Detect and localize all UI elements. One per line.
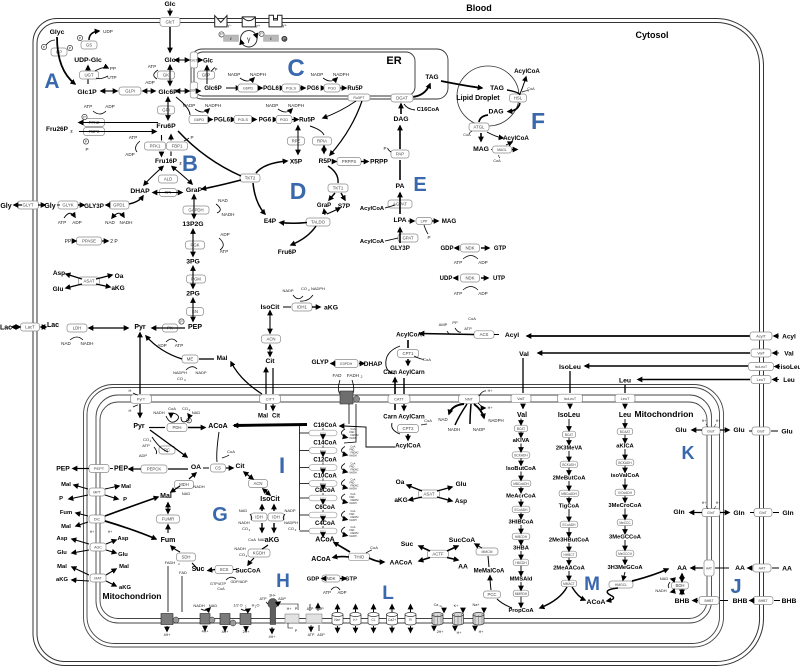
svg-text:BCAAT: BCAAT: [620, 430, 630, 434]
svg-text:PGL6: PGL6: [263, 86, 279, 92]
svg-text:AcylCoA: AcylCoA: [396, 332, 422, 339]
svg-text:Asp: Asp: [118, 536, 129, 542]
wire TALDO to E4P: [280, 222, 307, 225]
enzyme ME: [182, 355, 198, 363]
svg-text:H+: H+: [90, 530, 94, 534]
svg-text:FADH: FADH: [347, 373, 359, 378]
enzyme THIO: [349, 553, 370, 561]
wire beta-ox thick to ACoA: [234, 425, 307, 426]
svg-text:Glyc: Glyc: [50, 29, 65, 36]
wire column segment: [568, 558, 570, 565]
svg-text:Mal: Mal: [121, 484, 131, 490]
svg-text:A: A: [44, 70, 59, 93]
enzyme BCAAT Leu path: [617, 428, 633, 435]
transporter GLYT: [18, 201, 39, 209]
svg-text:CoA: CoA: [168, 406, 176, 411]
svg-text:ADP: ADP: [220, 232, 229, 237]
svg-text:UTP: UTP: [107, 75, 116, 80]
phospho-epsilon module right: [259, 31, 264, 36]
svg-text:KGDH: KGDH: [253, 551, 265, 556]
svg-text:SDH: SDH: [181, 555, 190, 560]
svg-text:aKICA: aKICA: [616, 444, 634, 450]
svg-text:C8CoA: C8CoA: [315, 488, 336, 494]
svg-text:BOX: BOX: [320, 431, 326, 435]
svg-text:UDP: UDP: [103, 29, 113, 34]
wire column segment: [624, 435, 626, 443]
svg-text:H+: H+: [108, 530, 112, 534]
svg-text:ADP: ADP: [105, 104, 114, 109]
enzyme HMGCL: [609, 581, 633, 588]
transporter AGC: [90, 543, 106, 551]
enzyme MBCoADH Val path: [511, 480, 531, 487]
wire GPD1 to DHAP: [129, 196, 143, 204]
svg-text:P: P: [190, 135, 193, 140]
wire GLY3P to LPA: [399, 228, 401, 243]
enzyme MMRDH Val path: [513, 590, 529, 597]
enzyme BOX step 5: [309, 495, 337, 501]
svg-text:Blood: Blood: [466, 3, 492, 13]
svg-text:PP: PP: [65, 239, 72, 245]
svg-text:aKG: aKG: [394, 497, 407, 504]
svg-text:AA: AA: [677, 565, 687, 572]
svg-text:MBCoADH: MBCoADH: [561, 492, 577, 496]
svg-text:ATP: ATP: [148, 64, 157, 69]
svg-text:DHAP: DHAP: [364, 361, 383, 368]
svg-text:4H+: 4H+: [202, 630, 209, 634]
svg-text:Val: Val: [519, 351, 529, 358]
svg-text:P: P: [85, 147, 88, 152]
svg-text:AAT: AAT: [706, 567, 712, 571]
wire Fru16P2 split to DHAP and GraP: [144, 167, 163, 186]
wire column segment: [624, 540, 626, 550]
svg-text:CoA: CoA: [423, 357, 431, 362]
enzyme LDH: [67, 324, 87, 332]
svg-text:Acyl: Acyl: [505, 332, 519, 339]
gamma cycle circle: [241, 31, 257, 47]
wire arc to S7P: [327, 208, 340, 214]
transporter ValT cell: [751, 349, 771, 357]
svg-text:CO: CO: [177, 376, 183, 381]
transporter OGC: [90, 574, 106, 582]
svg-text:G3PDH: G3PDH: [340, 362, 353, 366]
enzyme ACN cytosol: [262, 335, 281, 343]
wire column segment: [520, 487, 522, 493]
svg-text:Leu: Leu: [783, 377, 795, 384]
enzyme SCS: [215, 566, 233, 574]
svg-text:γ+: γ+: [282, 23, 287, 28]
svg-text:ACoA: ACoA: [208, 423, 227, 430]
svg-text:NAD: NAD: [660, 576, 669, 581]
svg-text:4H+: 4H+: [269, 635, 276, 639]
svg-text:C6CoA: C6CoA: [315, 505, 336, 511]
enzyme IDH mito x2: [251, 513, 267, 521]
svg-text:ACTF: ACTF: [432, 552, 444, 557]
svg-text:H+: H+: [488, 406, 493, 410]
svg-text:Suc: Suc: [401, 541, 414, 548]
svg-text:BOX: BOX: [320, 496, 326, 500]
svg-text:CITT: CITT: [266, 397, 275, 402]
svg-text:SCS: SCS: [220, 567, 229, 572]
svg-text:SucCoA: SucCoA: [449, 537, 476, 544]
svg-text:NADH: NADH: [448, 427, 460, 432]
wire MAG via MAGL: [491, 149, 492, 151]
svg-text:BHB: BHB: [675, 598, 690, 605]
transporter NNT: [459, 395, 480, 404]
enzyme MDH: [175, 481, 194, 489]
wire 2PG-PEP: [192, 299, 194, 322]
svg-text:PEP: PEP: [114, 466, 128, 473]
svg-text:H+: H+: [702, 501, 706, 505]
wire Glc1P-Glc6P: [101, 90, 117, 92]
svg-text:H+: H+: [716, 419, 720, 423]
svg-text:PG6: PG6: [259, 117, 272, 124]
svg-text:PP: PP: [452, 320, 458, 325]
wire ER GlcT arrows: [175, 59, 189, 61]
wire HMGCL to ACoA: [607, 588, 618, 601]
svg-text:J: J: [730, 576, 741, 598]
wire column segment: [520, 499, 522, 506]
enzyme RPIA: [313, 137, 332, 145]
wire column segment: [520, 582, 522, 590]
wire TAG to droplet: [441, 81, 482, 88]
wire AcylT to Acyl: [527, 335, 752, 337]
svg-text:3PG: 3PG: [186, 259, 200, 266]
transporter GluT mito: [702, 427, 720, 435]
svg-text:ATP: ATP: [58, 220, 67, 225]
svg-text:Glc6P: Glc6P: [204, 85, 222, 92]
svg-text:E4P: E4P: [264, 218, 277, 225]
svg-text:PGK: PGK: [190, 243, 199, 248]
wire Suc to Fum: [192, 563, 198, 570]
enzyme ECoADH IsoLeu path: [560, 521, 578, 528]
svg-text:MeMalCoA: MeMalCoA: [474, 569, 505, 575]
svg-text:HHBCT: HHBCT: [564, 553, 575, 557]
enzyme GK: [158, 71, 175, 79]
wire D-cycle arc TKT2 to E4P: [253, 183, 265, 214]
enzyme BCAT IsoLeu path: [562, 431, 575, 438]
svg-text:Mitochondrion: Mitochondrion: [634, 409, 693, 419]
wires THIO cross: [334, 543, 350, 553]
svg-text:CPT2: CPT2: [403, 426, 415, 431]
svg-text:LPA: LPA: [393, 217, 406, 224]
svg-text:G1Pi: G1Pi: [125, 89, 135, 94]
svg-text:aKG: aKG: [119, 585, 131, 591]
transporter AAT cell: [753, 564, 771, 572]
enzyme HBCDH Val path: [513, 559, 529, 566]
enzyme IDH1: [292, 303, 312, 311]
enzyme CS: [211, 464, 226, 472]
wires mGPD down to ladder: [348, 404, 350, 424]
svg-text:AMP: AMP: [439, 322, 448, 327]
transporter ANT: [306, 614, 322, 623]
svg-text:BCAT: BCAT: [565, 433, 573, 437]
wire column segment: [520, 472, 522, 481]
wire Pyr to OA via PC: [150, 430, 187, 457]
wire CarnAcylCarn through CATT: [394, 378, 396, 394]
svg-text:PGD: PGD: [328, 87, 336, 91]
svg-text:aKG: aKG: [56, 577, 68, 583]
svg-text:Lac: Lac: [47, 322, 59, 329]
svg-text:NADP: NADP: [195, 370, 206, 375]
svg-text:L: L: [382, 583, 394, 604]
svg-text:Na+: Na+: [472, 603, 480, 607]
svg-text:I: I: [279, 453, 285, 478]
svg-text:HIBCDH: HIBCDH: [515, 535, 528, 539]
svg-text:P: P: [59, 496, 63, 502]
wire MMACT to PropCoA and ACoA: [540, 587, 567, 608]
svg-text:γ: γ: [247, 37, 251, 44]
enzyme BOX step 4: [309, 481, 337, 487]
enzyme BOX step 3: [309, 465, 337, 471]
svg-text:ME: ME: [187, 357, 194, 362]
wire PA to DAG: [399, 160, 401, 180]
svg-text:PAP: PAP: [396, 152, 404, 157]
svg-text:IsoLeuT: IsoLeuT: [564, 397, 576, 401]
svg-text:Na+: Na+: [334, 618, 340, 622]
wire aKG to SucCoA: [262, 545, 268, 549]
svg-text:3MeGCCoA: 3MeGCCoA: [609, 535, 642, 541]
svg-text:R5P: R5P: [319, 158, 332, 165]
svg-text:C12CoA: C12CoA: [313, 458, 337, 464]
svg-text:K+: K+: [454, 604, 460, 608]
wires NNT fan: [449, 404, 464, 414]
svg-text:LeuT: LeuT: [621, 396, 630, 401]
svg-text:G6PT: G6PT: [190, 89, 198, 93]
svg-text:K: K: [682, 443, 695, 463]
wire D-cycle arc TKT2 to X5P: [256, 161, 287, 173]
svg-text:NAD: NAD: [218, 198, 228, 203]
ETC complex III: [220, 614, 230, 625]
transporter GlnT mito: [702, 509, 720, 517]
svg-text:AcylCoA: AcylCoA: [395, 443, 421, 450]
wire MAGL to AcylCoA: [506, 142, 512, 145]
svg-text:ε: ε: [230, 36, 232, 41]
wire DAG to DGAT: [400, 104, 402, 114]
wire column segment: [624, 479, 626, 490]
svg-text:ATP: ATP: [129, 135, 138, 140]
ETC complex IV: [240, 614, 251, 625]
transporter AcylT: [750, 332, 772, 340]
svg-text:OA: OA: [191, 464, 201, 471]
svg-text:Mal: Mal: [119, 564, 129, 570]
svg-text:MPT: MPT: [93, 491, 101, 495]
svg-text:UDP: UDP: [440, 276, 453, 282]
svg-text:ATP: ATP: [454, 291, 463, 296]
svg-text:B: B: [182, 151, 198, 176]
svg-text:GluT: GluT: [707, 430, 716, 434]
svg-text:PP: PP: [110, 66, 116, 71]
svg-text:DAG: DAG: [488, 109, 503, 116]
svg-text:AcylCoA: AcylCoA: [514, 68, 540, 75]
svg-text:1/2 O: 1/2 O: [233, 604, 242, 608]
svg-text:Lipid Droplet: Lipid Droplet: [456, 95, 500, 102]
svg-text:H: H: [129, 388, 132, 393]
svg-text:NADH: NADH: [238, 520, 249, 525]
enzyme FUMR: [157, 515, 180, 523]
svg-text:NADP: NADP: [228, 72, 241, 77]
wire Lac transport: [41, 326, 46, 328]
svg-text:IsoLeuT: IsoLeuT: [755, 365, 767, 369]
cofactor arc step 2: [342, 447, 346, 455]
ETC complex II: [200, 614, 210, 625]
svg-text:D: D: [290, 178, 307, 204]
svg-text:H+: H+: [287, 607, 292, 611]
enzyme MMACT IsoLeu path: [561, 580, 577, 587]
enzyme HHBCT IsoLeu path: [561, 551, 577, 558]
svg-text:Gly: Gly: [0, 203, 11, 210]
svg-text:CoA: CoA: [463, 133, 471, 137]
pump Na+/H+: [473, 615, 484, 626]
svg-text:NADPH: NADPH: [205, 103, 221, 108]
transporter CITT: [260, 395, 281, 404]
svg-text:IsoLeu: IsoLeu: [559, 364, 581, 371]
svg-text:CoA: CoA: [527, 87, 535, 91]
enzyme UGT: [80, 71, 99, 79]
svg-text:G: G: [212, 504, 228, 526]
svg-text:CPT1: CPT1: [403, 351, 415, 356]
svg-text:Mitochondrion: Mitochondrion: [102, 591, 161, 601]
svg-text:PGD: PGD: [280, 118, 288, 122]
svg-text:PGLS: PGLS: [238, 118, 249, 122]
svg-text:UGT: UGT: [84, 73, 93, 78]
wire AcylCoA to CarnAcylCarn: [407, 340, 409, 348]
svg-text:3MeCroCoA: 3MeCroCoA: [608, 503, 642, 509]
svg-text:Glc: Glc: [165, 57, 176, 64]
svg-text:NADH: NADH: [350, 488, 357, 491]
svg-text:BCKADH: BCKADH: [514, 454, 528, 458]
svg-text:CoA: CoA: [493, 159, 501, 163]
svg-text:E: E: [413, 174, 426, 196]
svg-text:MeAcrCoA: MeAcrCoA: [506, 494, 536, 500]
svg-text:GTP: GTP: [345, 577, 357, 583]
svg-text:NADP: NADP: [284, 508, 295, 513]
enzyme TKT2: [240, 174, 260, 182]
svg-text:BDH: BDH: [675, 583, 684, 588]
svg-text:ATGL: ATGL: [474, 125, 486, 130]
svg-text:NDK: NDK: [326, 576, 335, 581]
svg-text:NADPH: NADPH: [288, 103, 304, 108]
ion channel 1: [332, 615, 343, 626]
svg-text:DIC: DIC: [94, 518, 101, 522]
wire AcylCoA from HSL: [520, 77, 526, 94]
wire column segment: [568, 571, 570, 580]
ETC complex I: [161, 614, 173, 625]
svg-text:Gln: Gln: [782, 510, 793, 517]
wire column segment: [568, 509, 570, 521]
enzyme BOX step 6: [309, 512, 337, 518]
svg-text:GDP: GDP: [440, 246, 453, 252]
enzyme GLYK: [58, 201, 78, 209]
svg-text:FUMR: FUMR: [162, 517, 174, 522]
svg-text:GDP: GDP: [307, 577, 320, 583]
svg-text:NADH: NADH: [350, 535, 357, 538]
svg-text:G6PD: G6PD: [194, 118, 205, 122]
svg-text:NADPH: NADPH: [488, 418, 503, 423]
wire Pyr-Lac: [89, 327, 128, 329]
transporter BHBT mito: [699, 597, 719, 605]
svg-text:FAD: FAD: [333, 373, 343, 378]
wire column segment: [568, 438, 570, 445]
transporter IsoLeuT cell: [749, 363, 774, 371]
svg-text:P: P: [123, 497, 127, 503]
svg-text:MAG: MAG: [473, 146, 489, 153]
wire ACoA to CS: [217, 432, 219, 462]
svg-text:Mal: Mal: [217, 355, 228, 362]
svg-text:AACoA: AACoA: [390, 560, 413, 567]
svg-text:ValT: ValT: [517, 396, 525, 401]
svg-text:AcylT: AcylT: [756, 335, 766, 339]
svg-text:CoA: CoA: [424, 418, 432, 423]
enzyme LPP: [416, 218, 432, 225]
enzyme TPI: [160, 189, 177, 197]
svg-text:CO: CO: [239, 552, 245, 557]
svg-text:RPE: RPE: [292, 139, 301, 144]
svg-text:BOX: BOX: [320, 513, 326, 517]
transporter GluT cell: [752, 427, 770, 435]
svg-text:GLY3P: GLY3P: [84, 203, 104, 210]
svg-text:PGLS: PGLS: [286, 87, 297, 91]
svg-text:NAD: NAD: [182, 491, 191, 496]
svg-text:ADP: ADP: [72, 220, 81, 225]
enzyme DGAT: [391, 94, 413, 102]
svg-text:C10CoA: C10CoA: [313, 474, 337, 480]
svg-text:Mal: Mal: [61, 524, 71, 530]
svg-text:NADP: NADP: [183, 103, 196, 108]
wires SDH to complex II: [167, 566, 169, 612]
svg-text:ADP: ADP: [278, 597, 286, 601]
svg-text:PA: PA: [396, 183, 405, 190]
svg-text:NAD: NAD: [209, 603, 218, 608]
enzyme MAGL: [493, 146, 512, 153]
svg-text:Pyr: Pyr: [134, 324, 146, 331]
svg-text:PG6: PG6: [307, 86, 320, 92]
svg-text:ATP: ATP: [220, 249, 229, 254]
svg-text:Cytosol: Cytosol: [635, 30, 668, 40]
wire ATGL to MAG: [480, 133, 482, 141]
svg-text:IsoButCoA: IsoButCoA: [506, 466, 537, 472]
svg-text:ADP: ADP: [478, 291, 487, 296]
svg-text:MAT: MAT: [94, 577, 102, 581]
svg-text:CoA: CoA: [370, 545, 378, 550]
wire column segment: [520, 458, 522, 465]
svg-text:Gly: Gly: [44, 203, 55, 210]
enzyme GS: [81, 41, 97, 49]
wire column segment: [624, 557, 626, 564]
wire LeuT to Leu: [638, 379, 750, 381]
svg-text:aKG: aKG: [324, 305, 338, 312]
wire column segment: [568, 528, 570, 537]
transporter GlnT cell: [754, 509, 772, 517]
wire PEP to Pyr via PK: [152, 327, 185, 329]
svg-text:HMGCL: HMGCL: [615, 583, 627, 587]
svg-text:Oa: Oa: [396, 479, 405, 486]
svg-text:LDH: LDH: [73, 326, 82, 331]
ion channel 5: [405, 615, 416, 626]
enzyme MMCM: [476, 548, 498, 555]
svg-text:Glu: Glu: [781, 429, 792, 436]
enzyme ATGL: [469, 123, 489, 131]
svg-text:C: C: [287, 55, 304, 82]
svg-text:GPD1: GPD1: [113, 203, 125, 208]
svg-text:IsoCit: IsoCit: [260, 496, 280, 503]
wire column segment: [520, 432, 522, 437]
wire ValT to Val: [538, 352, 750, 354]
cofactor arc step 5: [342, 494, 346, 502]
svg-text:FADH: FADH: [165, 560, 176, 565]
svg-text:IVOcADH: IVOcADH: [618, 491, 633, 495]
svg-text:RPIA: RPIA: [317, 139, 327, 144]
enzyme PFK1: [145, 142, 166, 150]
